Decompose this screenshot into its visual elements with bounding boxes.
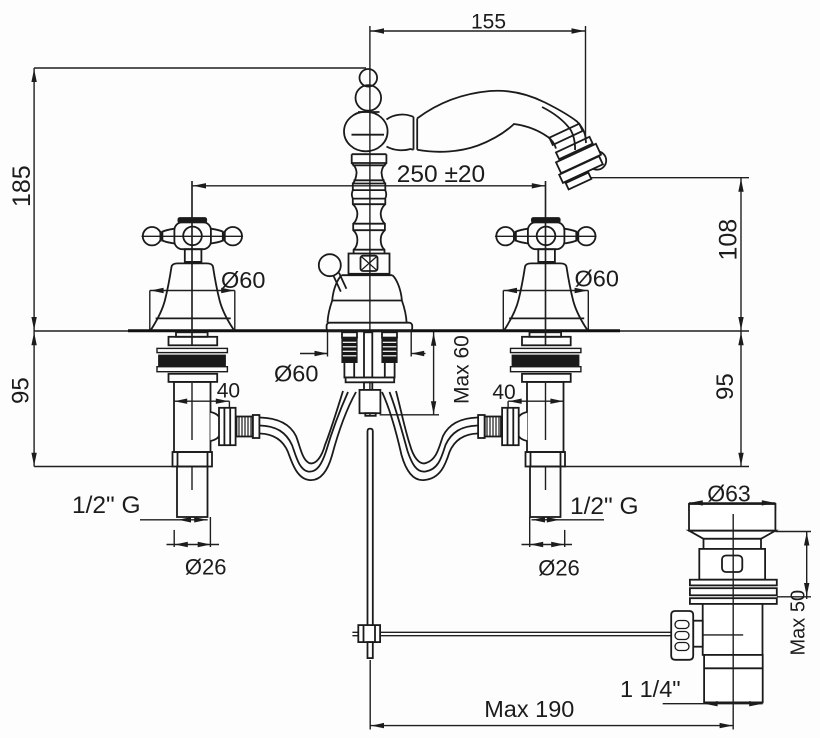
- svg-text:Ø26: Ø26: [185, 555, 227, 580]
- svg-text:1/2" G: 1/2" G: [570, 493, 639, 520]
- svg-text:1 1/4": 1 1/4": [620, 676, 681, 702]
- svg-text:40: 40: [217, 380, 240, 403]
- svg-text:Max 50: Max 50: [788, 590, 810, 656]
- svg-text:Ø63: Ø63: [707, 481, 750, 507]
- svg-text:Ø60: Ø60: [274, 361, 318, 387]
- svg-text:Ø60: Ø60: [221, 267, 265, 293]
- svg-text:1/2" G: 1/2" G: [72, 492, 141, 519]
- svg-text:95: 95: [8, 377, 35, 404]
- svg-text:Ø60: Ø60: [575, 266, 619, 292]
- svg-text:Ø26: Ø26: [538, 556, 580, 581]
- svg-text:108: 108: [715, 219, 743, 261]
- svg-text:40: 40: [492, 381, 515, 404]
- svg-text:Max 60: Max 60: [451, 335, 474, 404]
- svg-text:Max 190: Max 190: [484, 696, 574, 722]
- svg-text:155: 155: [471, 11, 506, 34]
- svg-text:250 ±20: 250 ±20: [397, 161, 485, 188]
- svg-text:185: 185: [8, 165, 36, 207]
- svg-text:95: 95: [712, 373, 739, 400]
